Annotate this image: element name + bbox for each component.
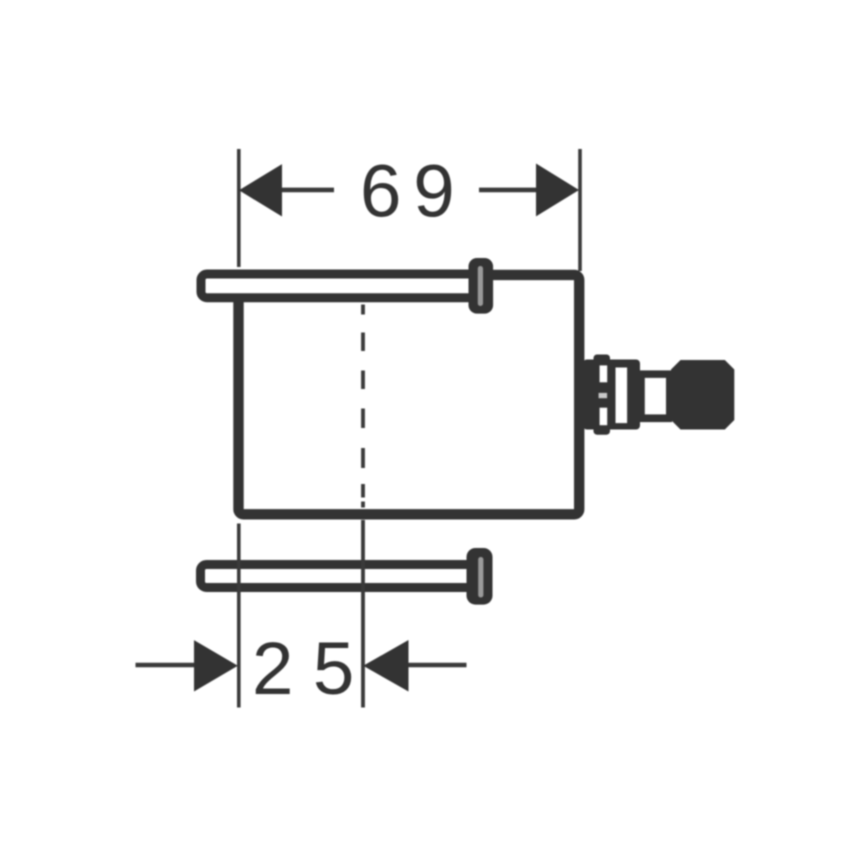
bar end cap (upper) bbox=[469, 258, 494, 314]
valve body outline bbox=[239, 275, 580, 514]
arrowhead 69 right bbox=[536, 164, 579, 217]
connector neck bbox=[639, 370, 673, 422]
dimension line 69 right tail bbox=[479, 188, 536, 193]
extension line left (dim 69, upper) bbox=[237, 149, 241, 267]
wall bar outline (upper) bbox=[201, 274, 476, 298]
extension line left (dim 25, lower) bbox=[237, 524, 241, 708]
rod end cap (lower) bbox=[467, 548, 493, 605]
nut slot 2 bbox=[616, 368, 628, 424]
connector plug bbox=[671, 360, 734, 430]
arrowhead 25 right bbox=[363, 640, 408, 692]
screw rod outline (lower) bbox=[201, 565, 486, 588]
centerline dash segments (inside body) bbox=[361, 305, 365, 508]
cap slit (upper) bbox=[478, 266, 483, 306]
connector nut bbox=[583, 360, 640, 430]
nut slot 1 gray dash bbox=[599, 393, 608, 398]
connector nut tabs bbox=[594, 355, 611, 435]
dimension line 25 left tail bbox=[136, 663, 195, 668]
nut slot 1 upper bbox=[600, 365, 608, 382]
cap slit (lower) bbox=[478, 557, 483, 598]
nut slot 1 lower bbox=[600, 408, 608, 426]
dimension line 69 left tail bbox=[282, 188, 334, 193]
svg-text:25: 25 bbox=[252, 627, 374, 710]
centerline solid lower part bbox=[361, 520, 365, 708]
neck window bbox=[645, 378, 666, 415]
extension line right (dim 69) bbox=[578, 149, 582, 271]
svg-text:69: 69 bbox=[360, 150, 466, 233]
dimension line 25 right tail bbox=[409, 663, 467, 668]
arrowhead 69 left bbox=[239, 164, 282, 216]
arrowhead 25 left bbox=[194, 640, 238, 691]
